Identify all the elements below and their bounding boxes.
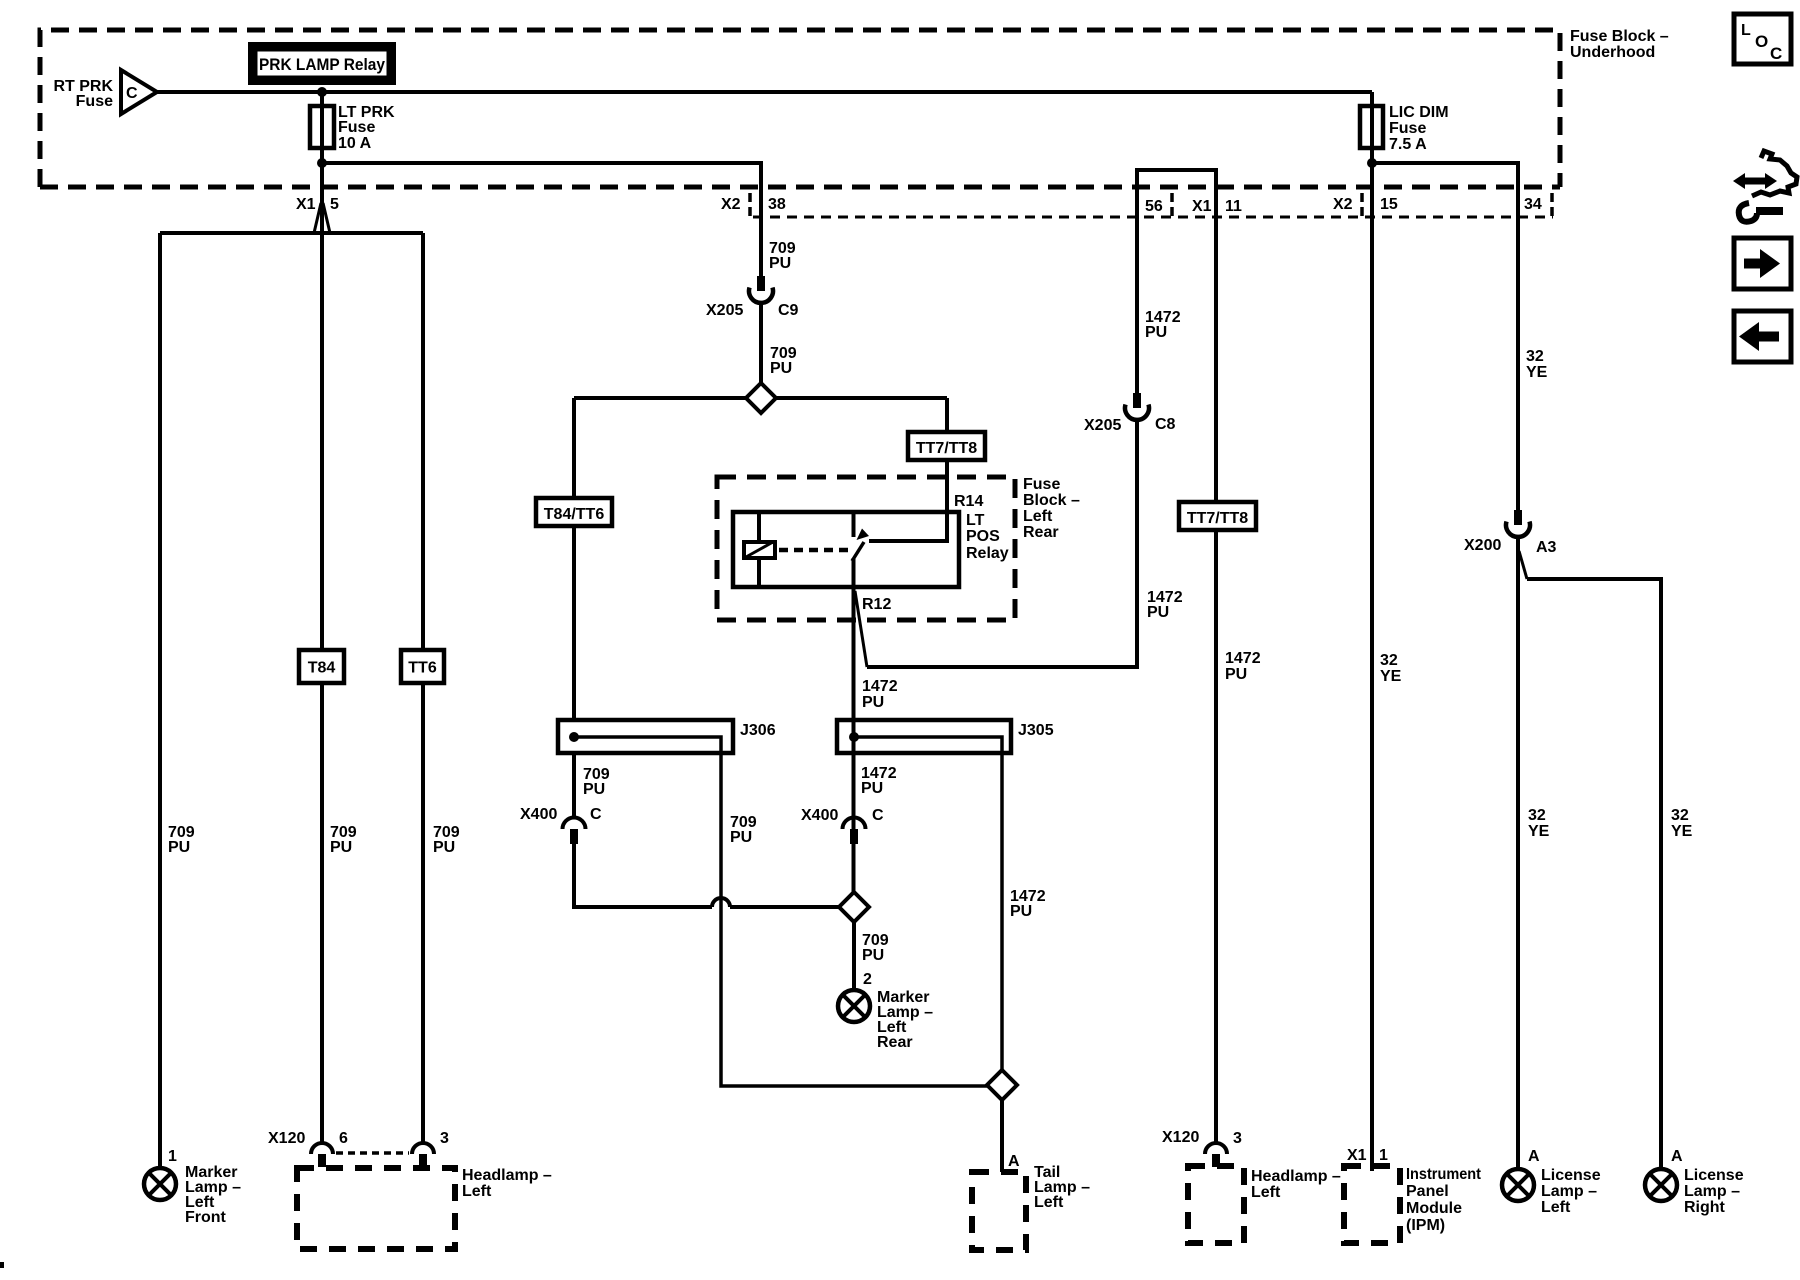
svg-text:Left: Left	[1034, 1194, 1064, 1211]
relay coil feed wire	[757, 512, 761, 587]
svg-text:X205: X205	[706, 302, 743, 319]
svg-text:PU: PU	[330, 839, 352, 856]
label X1 1 IPM	[1347, 1147, 1388, 1164]
label X205 C9	[706, 302, 799, 319]
splice diamond S1	[746, 383, 776, 413]
label Instrument Panel Module IPM	[1406, 1166, 1482, 1234]
svg-text:Rear: Rear	[1023, 524, 1059, 541]
wire R12 slant branch	[855, 591, 867, 667]
svg-text:PU: PU	[1010, 903, 1032, 920]
icon LOC box	[1734, 14, 1791, 64]
connector X1 pin 5 branch tent	[314, 203, 330, 233]
IPM dashed box	[1344, 1166, 1400, 1243]
svg-text:L: L	[1741, 22, 1751, 39]
svg-text:3: 3	[440, 1130, 449, 1147]
svg-text:Instrument: Instrument	[1406, 1166, 1482, 1183]
label License Lamp - Left	[1541, 1167, 1601, 1216]
svg-text:TT6: TT6	[408, 660, 437, 677]
svg-text:PU: PU	[769, 255, 791, 272]
fuse block terminal T84	[299, 650, 344, 683]
svg-text:Fuse: Fuse	[1023, 476, 1060, 493]
fuse LT PRK	[310, 106, 334, 148]
label Marker Lamp - Left Front	[185, 1164, 241, 1226]
label 709 PU below C9	[770, 345, 797, 377]
wire pin 11 column	[1214, 502, 1218, 1142]
svg-text:PU: PU	[168, 839, 190, 856]
wire X200 branch to license right	[1519, 551, 1527, 579]
fuse block terminal TT6	[401, 650, 444, 683]
svg-text:34: 34	[1524, 196, 1542, 213]
svg-text:1: 1	[168, 1148, 177, 1165]
svg-text:PU: PU	[433, 839, 455, 856]
relay fixed contact stub	[852, 512, 856, 537]
svg-text:Fuse: Fuse	[1389, 120, 1426, 137]
relay coil	[744, 542, 775, 558]
svg-text:Fuse: Fuse	[338, 119, 375, 136]
wire from LT PRK fuse to pin 38	[322, 163, 761, 276]
svg-text:PU: PU	[861, 780, 883, 797]
svg-text:Module: Module	[1406, 1200, 1462, 1217]
svg-text:PRK LAMP Relay: PRK LAMP Relay	[259, 55, 385, 74]
label 709 PU below J306	[583, 766, 610, 798]
svg-text:7.5 A: 7.5 A	[1389, 136, 1427, 153]
svg-text:6: 6	[339, 1130, 348, 1147]
label 709 PU right column	[433, 824, 460, 856]
label 1472 PU below C8	[1147, 589, 1183, 621]
svg-text:PU: PU	[1147, 604, 1169, 621]
headlamp left dashed box right	[1188, 1166, 1244, 1243]
svg-text:A3: A3	[1536, 539, 1557, 556]
svg-text:32: 32	[1380, 652, 1398, 669]
svg-text:Panel: Panel	[1406, 1183, 1449, 1200]
svg-text:PU: PU	[583, 781, 605, 798]
fuse block terminal TT7/TT8 second	[1179, 502, 1256, 530]
fuse block terminal T84/TT6	[536, 498, 612, 526]
svg-text:2: 2	[863, 971, 872, 988]
svg-text:(IPM): (IPM)	[1406, 1217, 1445, 1234]
connector X200 A3 inline	[1506, 510, 1530, 537]
fuse block left rear dashed box	[717, 477, 1015, 620]
svg-text:Left: Left	[462, 1183, 492, 1200]
connector X120 pin 3	[412, 1143, 434, 1167]
svg-text:T84/TT6: T84/TT6	[544, 506, 605, 523]
wire from LIC DIM fuse to pin 34	[1372, 163, 1518, 510]
RT PRK Fuse triangle	[121, 70, 157, 114]
label Headlamp - Left	[462, 1167, 552, 1200]
svg-text:Underhood: Underhood	[1570, 44, 1655, 61]
label Fuse Block - Underhood	[1570, 28, 1669, 61]
label 709 PU left front	[168, 824, 195, 856]
lamp marker left rear	[838, 990, 870, 1022]
wire LT PRK fuse drop	[320, 92, 324, 233]
svg-text:X205: X205	[1084, 417, 1121, 434]
connector band lower dashed line	[753, 216, 1553, 219]
svg-text:1: 1	[1379, 1147, 1388, 1164]
svg-text:X120: X120	[268, 1130, 305, 1147]
wire pin 15 column to IPM	[1370, 163, 1374, 1171]
label Headlamp - Left right	[1251, 1168, 1341, 1201]
label 709 PU marker rear	[862, 932, 889, 964]
label 1472 PU pin 11	[1225, 650, 1261, 683]
label 32 YE license left	[1528, 807, 1550, 840]
wire S2 to marker lamp left rear	[852, 922, 856, 990]
page speck artifact	[0, 1262, 4, 1268]
svg-text:PU: PU	[1145, 324, 1167, 341]
wire right splice branch to relay	[869, 398, 947, 541]
wire C9 to splice	[759, 303, 763, 383]
fuse block underhood dashed box	[40, 30, 1560, 187]
wire left splice branch down	[572, 398, 576, 720]
label 1472 PU below J305	[861, 765, 897, 797]
svg-text:Left: Left	[1251, 1184, 1281, 1201]
svg-text:Lamp –: Lamp –	[1684, 1183, 1740, 1200]
svg-text:X120: X120	[1162, 1129, 1199, 1146]
label Tail Lamp - Left	[1034, 1164, 1090, 1211]
wire X200 to license left	[1516, 537, 1520, 1169]
label R14 LT POS Relay	[954, 493, 1009, 562]
label LIC DIM Fuse 7.5 A	[1389, 104, 1449, 153]
label X400 C right	[801, 807, 884, 824]
svg-text:Headlamp –: Headlamp –	[462, 1167, 552, 1184]
connector X2 pin 15 separator	[1360, 193, 1364, 216]
connector X2 pin 15 labels	[1333, 196, 1398, 213]
wire branch header to right	[1527, 579, 1661, 1169]
svg-text:X400: X400	[801, 807, 838, 824]
label X120 3 right headlamp	[1162, 1129, 1242, 1147]
svg-text:15: 15	[1380, 196, 1398, 213]
svg-text:License: License	[1684, 1167, 1744, 1184]
svg-text:C: C	[872, 807, 884, 824]
svg-text:C9: C9	[778, 302, 799, 319]
connector X205 C9 inline	[749, 276, 773, 303]
svg-text:PU: PU	[1225, 666, 1247, 683]
svg-text:38: 38	[768, 196, 786, 213]
svg-text:R12: R12	[862, 596, 891, 613]
svg-text:11: 11	[1225, 198, 1242, 215]
wire left branch header	[160, 231, 423, 235]
svg-text:X2: X2	[721, 196, 741, 213]
wire center column through T84	[320, 233, 324, 1142]
svg-text:56: 56	[1145, 198, 1163, 215]
connector X1 pin 56-11 separator	[1170, 193, 1174, 216]
splice diamond S2	[839, 892, 869, 922]
svg-text:C: C	[590, 806, 602, 823]
svg-text:A: A	[1528, 1148, 1540, 1165]
svg-text:10 A: 10 A	[338, 135, 372, 152]
svg-text:C: C	[1770, 44, 1782, 63]
svg-text:LIC DIM: LIC DIM	[1389, 104, 1449, 121]
tail lamp left dashed box	[972, 1172, 1026, 1250]
connector X120 pin 6	[311, 1143, 333, 1167]
label 1472 PU above J305	[862, 678, 898, 711]
node junction dot below LT PRK fuse	[317, 158, 327, 168]
node junction dot at bus	[317, 87, 327, 97]
icon forward arrow box	[1734, 238, 1791, 289]
relay switch blade	[852, 542, 864, 561]
svg-text:X1: X1	[296, 196, 316, 213]
connector X120 pin 3 right	[1205, 1143, 1227, 1167]
label Marker Lamp - Left Rear	[877, 989, 933, 1051]
splice diamond S3	[987, 1070, 1017, 1100]
connector X1 pins 56 11 labels	[1145, 198, 1242, 215]
svg-text:J306: J306	[740, 722, 776, 739]
svg-text:PU: PU	[730, 829, 752, 846]
relay R14 LT POS box	[733, 512, 959, 587]
wire J305 tap	[854, 737, 1002, 1070]
lamp marker left front	[144, 1168, 176, 1200]
label RT PRK Fuse	[53, 78, 138, 110]
svg-text:License: License	[1541, 1167, 1601, 1184]
svg-text:1472: 1472	[862, 678, 898, 695]
svg-text:T84: T84	[308, 660, 336, 677]
svg-text:YE: YE	[1380, 668, 1402, 685]
svg-text:Front: Front	[185, 1209, 227, 1226]
svg-text:X400: X400	[520, 806, 557, 823]
connector X120 dashed link	[336, 1151, 409, 1155]
svg-text:O: O	[1755, 32, 1768, 51]
svg-text:YE: YE	[1528, 823, 1550, 840]
svg-text:PU: PU	[862, 947, 884, 964]
relay switch arrowhead	[857, 529, 870, 541]
label 32 YE pin 15	[1380, 652, 1402, 685]
label X205 C8	[1084, 416, 1176, 434]
svg-text:Fuse: Fuse	[76, 93, 113, 110]
svg-text:Relay: Relay	[966, 545, 1009, 562]
svg-text:X1: X1	[1347, 1147, 1367, 1164]
node junction dot J305	[849, 732, 859, 742]
wire splice header row	[574, 396, 947, 400]
label 1472 PU J305 tap	[1010, 888, 1046, 920]
connector X2 pin 38 labels	[721, 196, 786, 213]
svg-text:Left: Left	[1541, 1199, 1571, 1216]
label 709 PU center	[330, 824, 357, 856]
label X200 A3	[1464, 537, 1557, 556]
wire X400 left to splice S2	[574, 844, 712, 907]
svg-text:A: A	[1008, 1153, 1020, 1170]
wire hop crossover	[712, 898, 730, 907]
svg-text:A: A	[1671, 1148, 1683, 1165]
node junction dot below LIC DIM fuse	[1367, 158, 1377, 168]
connector X400 C right	[843, 818, 866, 844]
svg-text:Rear: Rear	[877, 1034, 913, 1051]
svg-text:TT7/TT8: TT7/TT8	[916, 440, 977, 457]
connector X400 C left	[563, 818, 586, 844]
label LT PRK Fuse 10 A	[338, 104, 395, 152]
svg-text:3: 3	[1233, 1130, 1242, 1147]
svg-text:PU: PU	[862, 694, 884, 711]
label 709 PU pin 38 drop	[769, 240, 796, 272]
junction block J306	[558, 720, 733, 753]
svg-text:5: 5	[330, 196, 339, 213]
svg-text:Headlamp –: Headlamp –	[1251, 1168, 1341, 1185]
svg-text:YE: YE	[1526, 364, 1548, 381]
label License Lamp - Right	[1684, 1167, 1744, 1216]
fuse LIC DIM	[1360, 106, 1383, 148]
wire J306 tap	[574, 737, 987, 1086]
wire main feed bus	[155, 90, 1372, 94]
wire LIC DIM fuse drop	[1370, 92, 1374, 163]
wire S3 to tail lamp	[1000, 1100, 1004, 1172]
svg-text:Fuse Block –: Fuse Block –	[1570, 28, 1669, 45]
svg-text:32: 32	[1526, 348, 1544, 365]
label 709 PU J306 tap	[730, 814, 757, 846]
svg-text:PU: PU	[770, 360, 792, 377]
relay mechanical dashed link	[779, 548, 851, 553]
label Fuse Block - Left Rear	[1023, 476, 1080, 541]
label X120 6 3	[268, 1130, 449, 1147]
headlamp left dashed box	[297, 1168, 455, 1249]
wire hop to splice S2	[730, 905, 854, 909]
wire to marker lamp left front	[158, 233, 162, 1168]
fuse block terminal TT7/TT8	[908, 432, 985, 460]
svg-text:YE: YE	[1671, 823, 1693, 840]
svg-text:LT: LT	[966, 512, 985, 529]
icon back arrow box	[1734, 311, 1791, 362]
label X400 C left	[520, 806, 602, 823]
label 32 YE license right	[1671, 807, 1693, 840]
IPM connector bridge box pins 56-11	[1137, 170, 1216, 502]
svg-text:X2: X2	[1333, 196, 1353, 213]
svg-text:POS: POS	[966, 528, 1000, 545]
label 32 YE pin 34	[1526, 348, 1548, 381]
wire J306 to X400	[572, 753, 576, 817]
wire R12 to X205 C8	[867, 420, 1137, 667]
lamp license left	[1502, 1169, 1534, 1201]
junction block J305	[837, 720, 1011, 753]
svg-text:C: C	[126, 85, 138, 102]
PRK LAMP Relay label box	[252, 46, 392, 81]
svg-text:R14: R14	[954, 493, 983, 510]
svg-text:C8: C8	[1155, 416, 1176, 433]
svg-text:1472: 1472	[1225, 650, 1261, 667]
svg-text:Block –: Block –	[1023, 492, 1080, 509]
wire right column through TT6	[421, 233, 425, 1142]
svg-text:Lamp –: Lamp –	[1541, 1183, 1597, 1200]
lamp license right	[1645, 1169, 1677, 1201]
svg-text:32: 32	[1528, 807, 1546, 824]
node junction dot J306	[569, 732, 579, 742]
connector pin 34 separator	[1550, 193, 1554, 216]
svg-text:TT7/TT8: TT7/TT8	[1187, 510, 1248, 527]
svg-text:J305: J305	[1018, 722, 1054, 739]
label 1472 PU pin 56	[1145, 309, 1181, 341]
svg-text:32: 32	[1671, 807, 1689, 824]
connector X205 C8 inline	[1125, 393, 1149, 420]
svg-text:Right: Right	[1684, 1199, 1726, 1216]
svg-text:Left: Left	[1023, 508, 1053, 525]
icon scribble arrows	[1733, 151, 1797, 222]
connector X2 pin 38 separator	[748, 193, 752, 216]
connector X1 pin 5 labels	[296, 196, 339, 213]
svg-text:X200: X200	[1464, 537, 1501, 554]
wire relay pivot R12 down	[852, 558, 856, 892]
svg-text:X1: X1	[1192, 198, 1212, 215]
